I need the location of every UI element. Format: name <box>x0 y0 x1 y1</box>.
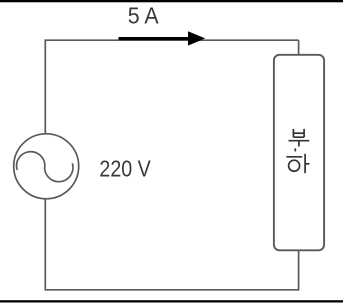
bottom rule line <box>0 300 343 302</box>
load box <box>274 55 324 251</box>
load label hangul BU (부) <box>289 129 310 147</box>
current arrow shaft <box>119 37 190 40</box>
wire bottom horizontal <box>45 289 299 291</box>
load label hangul HA (하) <box>286 148 309 173</box>
svg-text:5 A: 5 A <box>128 3 160 29</box>
svg-text:220 V: 220 V <box>99 155 151 181</box>
wire right vertical upper <box>298 40 300 55</box>
wire right vertical lower <box>298 250 300 290</box>
current arrow head <box>188 31 205 45</box>
top rule line <box>0 0 343 2</box>
wire left vertical lower <box>44 199 46 290</box>
AC source V1 circle <box>14 134 79 199</box>
wire top horizontal <box>45 39 298 41</box>
wire left vertical upper <box>44 39 46 133</box>
AC source V1 sine wave <box>17 152 73 182</box>
